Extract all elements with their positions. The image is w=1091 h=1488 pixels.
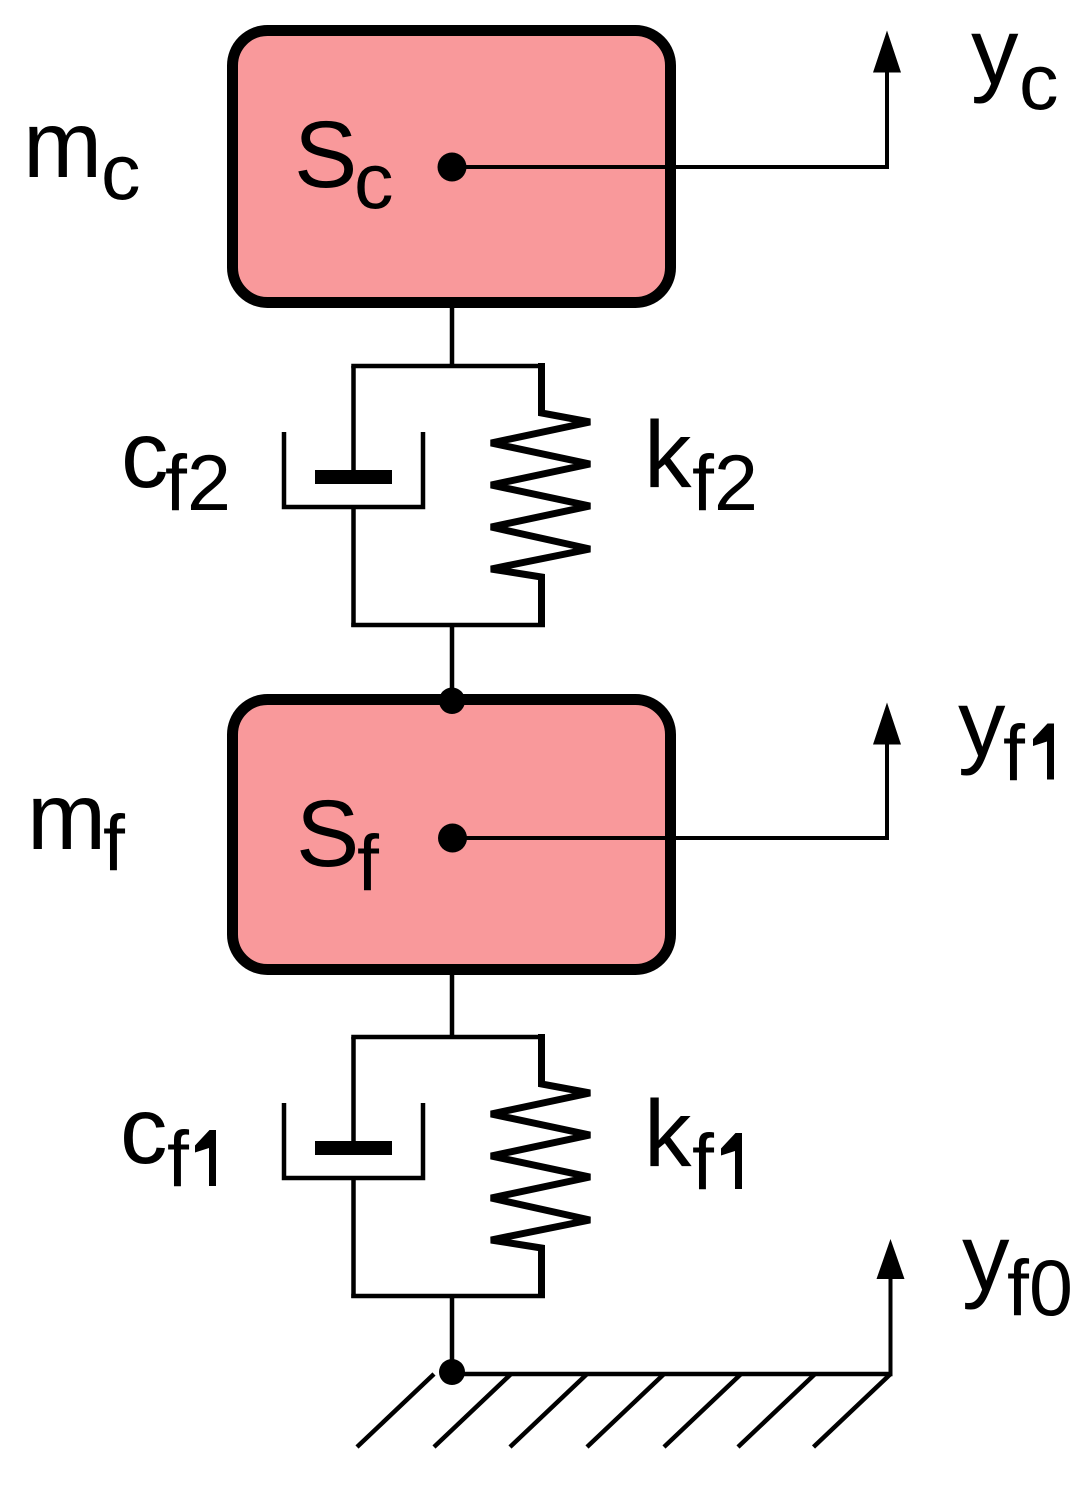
svg-text:f: f <box>103 798 126 887</box>
svg-text:f: f <box>1003 708 1026 797</box>
svg-text:y: y <box>958 671 1006 777</box>
svg-text:f0: f0 <box>1007 1243 1073 1332</box>
svg-text:k: k <box>644 402 692 508</box>
svg-text:c: c <box>354 136 394 225</box>
svg-text:f2: f2 <box>165 438 231 527</box>
svg-text:c: c <box>121 402 169 508</box>
svg-text:S: S <box>296 781 359 887</box>
svg-text:c: c <box>1019 37 1059 126</box>
svg-text:y: y <box>971 0 1019 105</box>
svg-text:S: S <box>294 102 357 208</box>
svg-text:f2: f2 <box>692 438 758 527</box>
svg-text:m: m <box>27 764 106 870</box>
svg-text:c: c <box>101 127 141 216</box>
svg-text:m: m <box>23 92 102 198</box>
svg-text:f: f <box>167 1114 190 1203</box>
svg-text:c: c <box>120 1078 168 1184</box>
svg-text:f: f <box>692 1117 715 1206</box>
svg-text:y: y <box>962 1205 1010 1311</box>
svg-text:k: k <box>644 1081 692 1187</box>
svg-text:f: f <box>357 818 380 907</box>
